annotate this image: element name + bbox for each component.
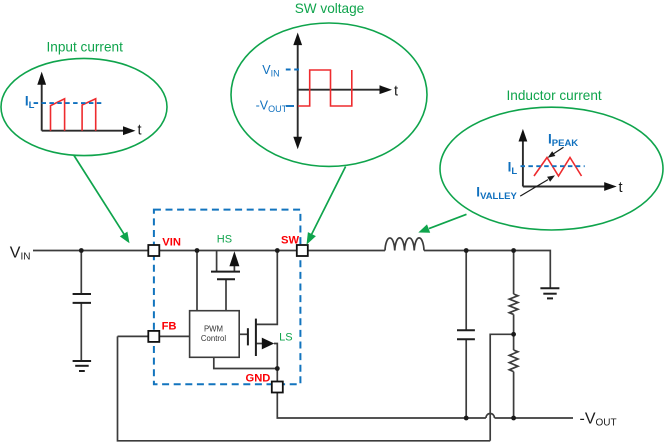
svg-text:Inductor current: Inductor current [506, 88, 601, 103]
svg-text:t: t [394, 84, 398, 100]
svg-text:SW: SW [281, 235, 299, 247]
svg-text:Control: Control [201, 334, 226, 343]
svg-text:t: t [619, 180, 623, 196]
svg-text:SW voltage: SW voltage [295, 1, 365, 16]
svg-text:LS: LS [279, 332, 292, 344]
svg-text:PWM: PWM [204, 325, 223, 334]
svg-text:FB: FB [162, 320, 177, 332]
svg-text:GND: GND [246, 372, 271, 384]
svg-text:HS: HS [217, 234, 232, 246]
svg-text:Input current: Input current [47, 40, 124, 55]
svg-text:t: t [138, 122, 142, 138]
svg-text:VIN: VIN [162, 236, 181, 248]
